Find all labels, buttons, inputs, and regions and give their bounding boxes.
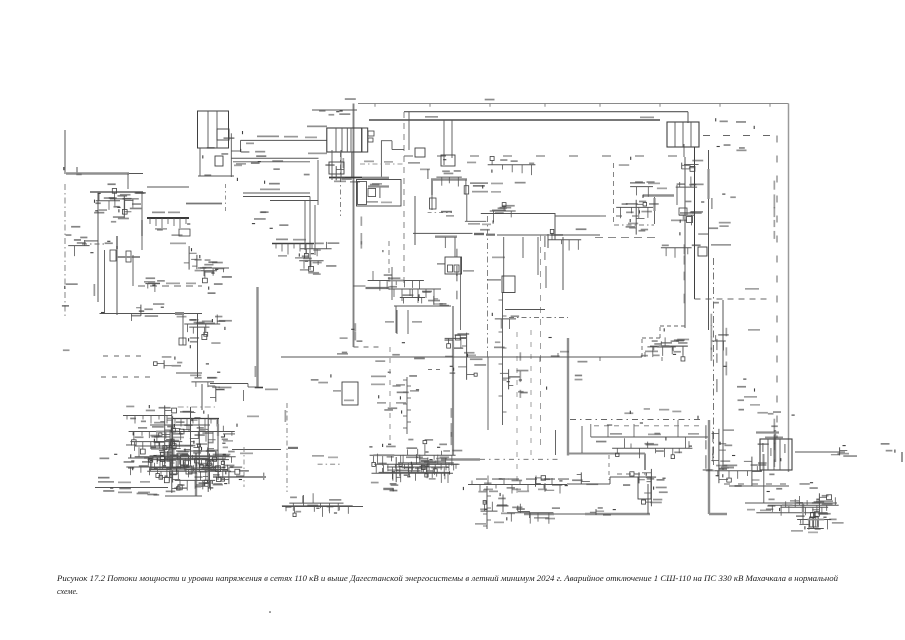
svg-text:схеме.: схеме. xyxy=(57,587,78,596)
svg-text:Рисунок 17.2 Потоки мощности и: Рисунок 17.2 Потоки мощности и уровни на… xyxy=(56,574,838,583)
